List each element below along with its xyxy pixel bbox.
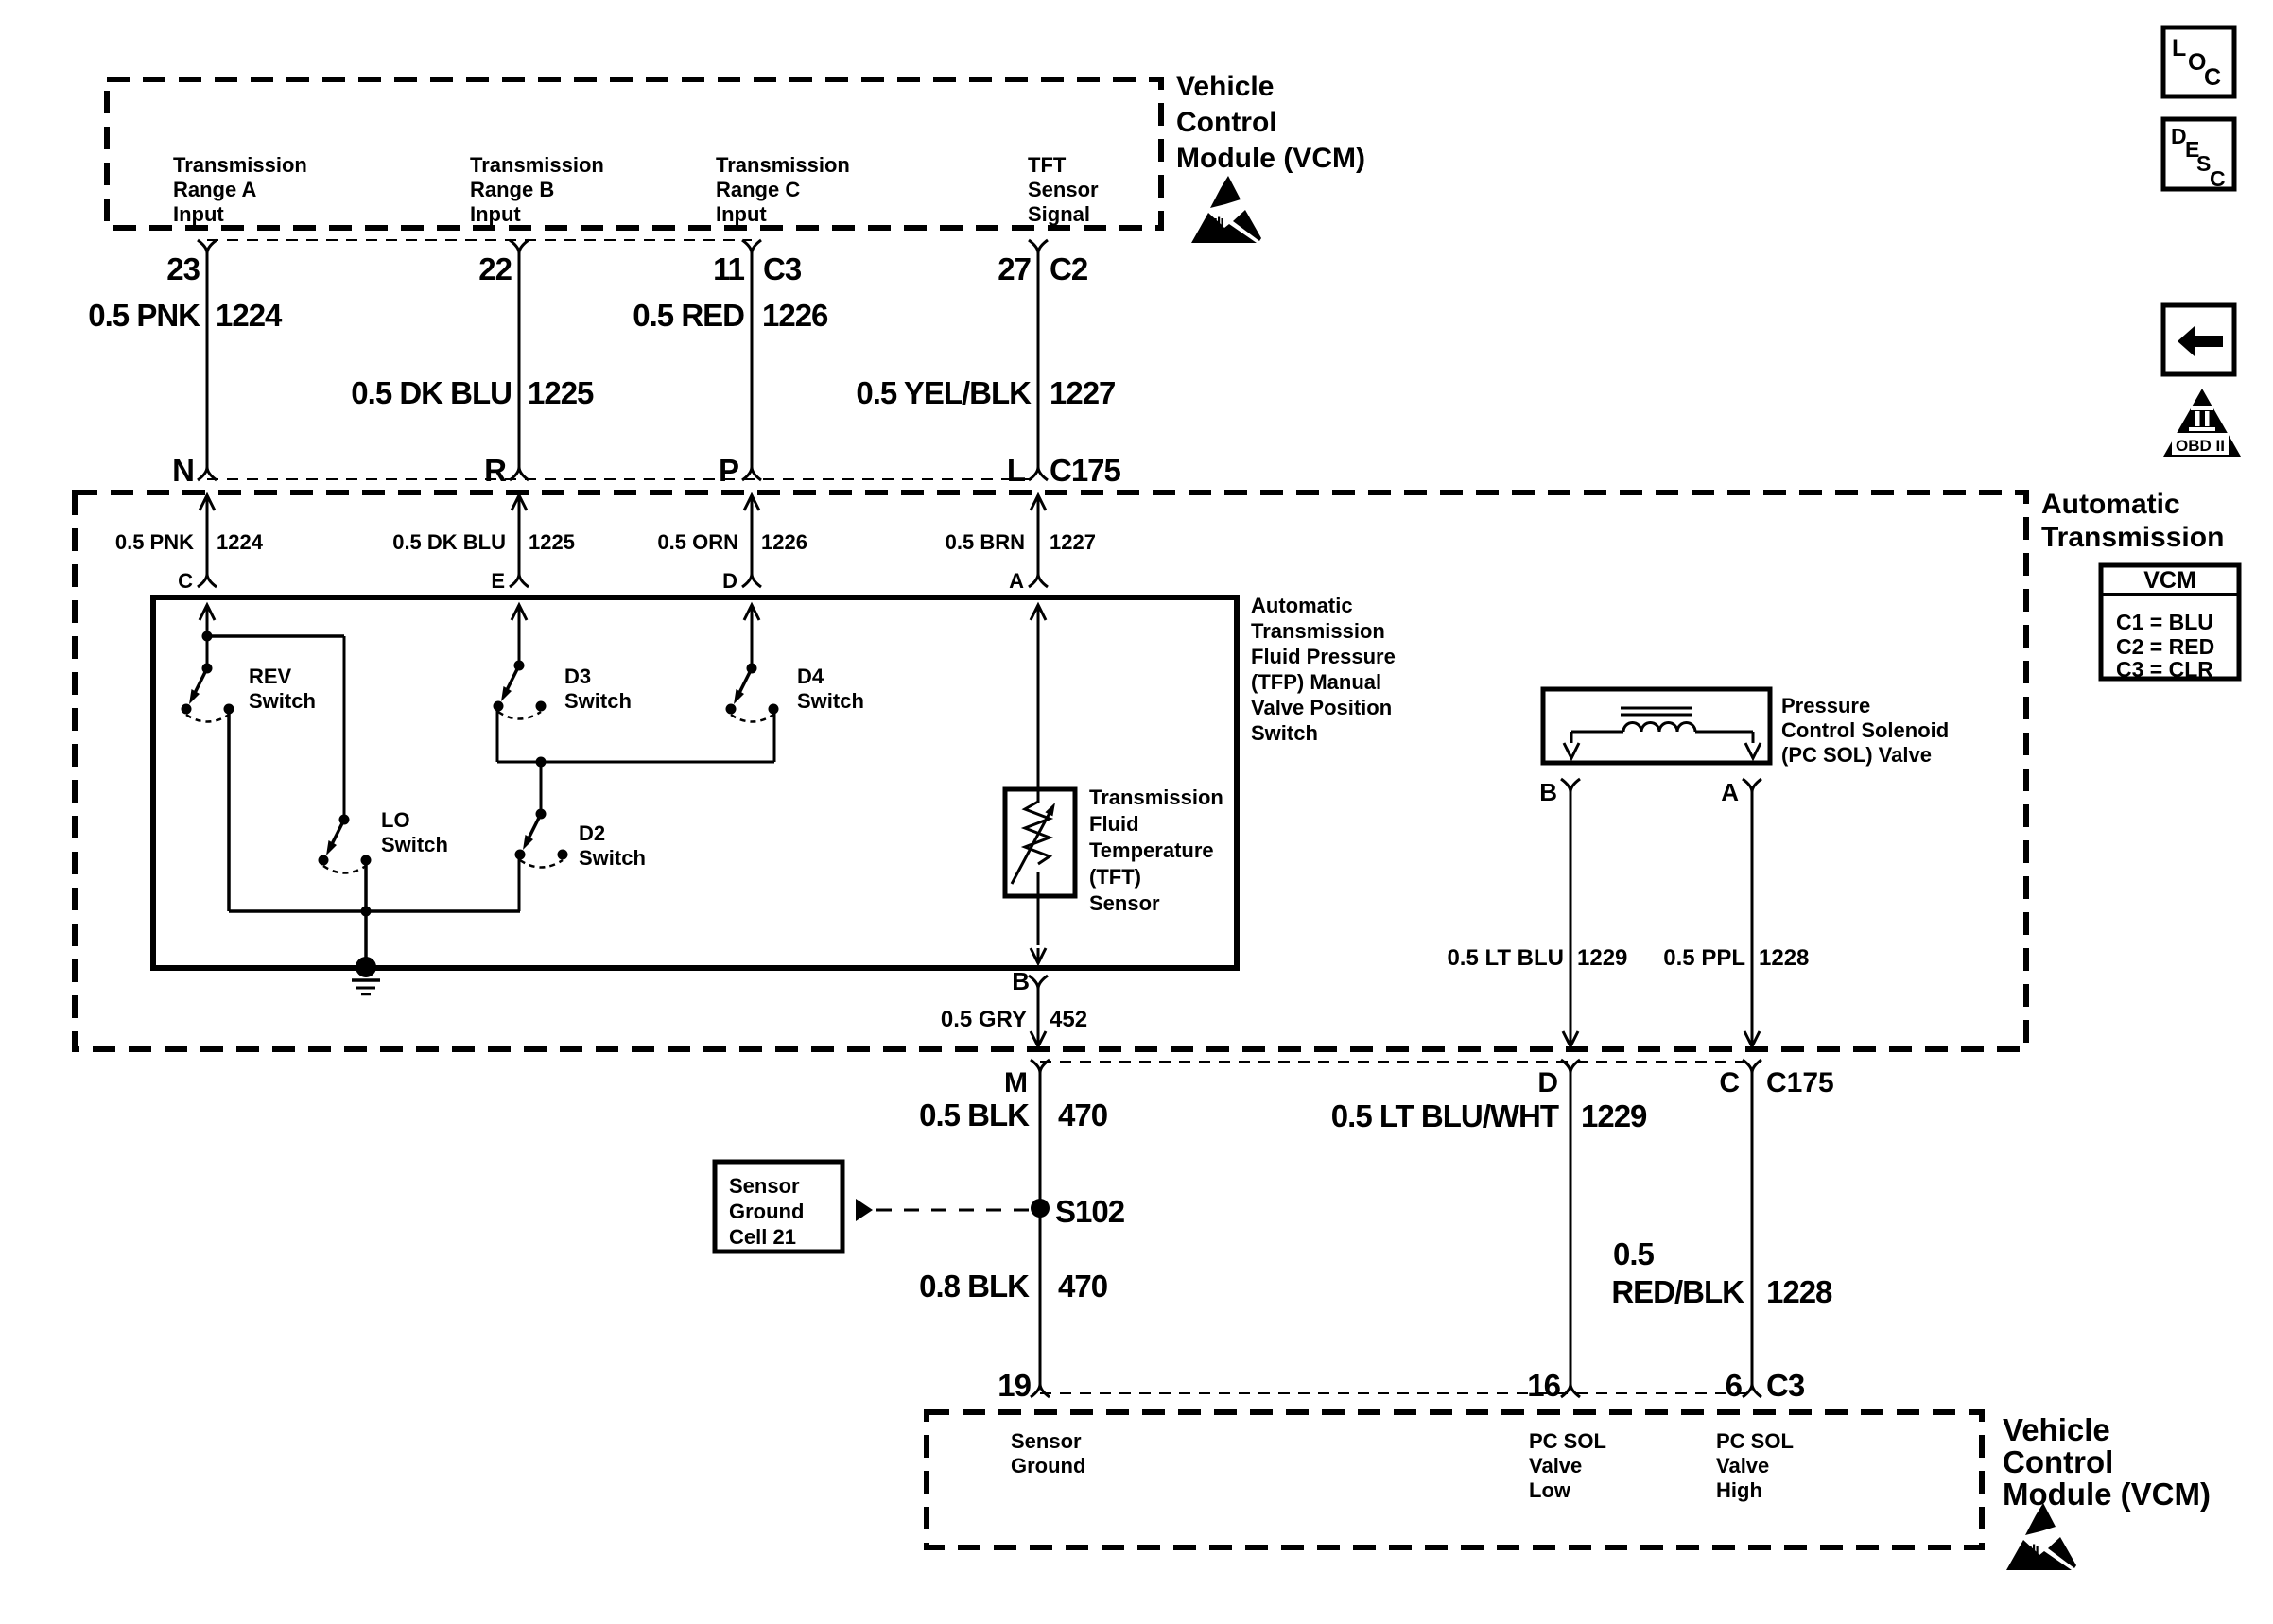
svg-text:Fluid: Fluid — [1089, 812, 1139, 836]
svg-text:Ground: Ground — [729, 1200, 804, 1223]
svg-text:0.5 PPL: 0.5 PPL — [1663, 945, 1745, 971]
svg-text:Fluid Pressure: Fluid Pressure — [1251, 645, 1396, 668]
svg-text:16: 16 — [1527, 1368, 1560, 1403]
svg-text:D: D — [722, 569, 737, 593]
svg-text:Switch: Switch — [249, 689, 316, 713]
svg-text:11: 11 — [713, 251, 745, 286]
svg-text:1228: 1228 — [1766, 1274, 1832, 1309]
svg-text:PC SOL: PC SOL — [1529, 1429, 1606, 1453]
svg-text:Valve: Valve — [1529, 1454, 1582, 1477]
svg-text:1225: 1225 — [529, 530, 575, 554]
svg-text:Pressure: Pressure — [1781, 694, 1870, 717]
svg-text:Temperature: Temperature — [1089, 838, 1214, 862]
svg-text:R: R — [484, 453, 507, 488]
svg-text:C175: C175 — [1050, 453, 1121, 488]
svg-text:1224: 1224 — [217, 530, 264, 554]
svg-text:(PC SOL) Valve: (PC SOL) Valve — [1781, 743, 1932, 767]
svg-text:Vehicle: Vehicle — [2003, 1412, 2110, 1447]
svg-text:Input: Input — [470, 202, 521, 226]
svg-text:D4: D4 — [797, 665, 824, 688]
svg-text:A: A — [1009, 569, 1024, 593]
svg-text:Switch: Switch — [797, 689, 864, 713]
svg-text:PC SOL: PC SOL — [1716, 1429, 1794, 1453]
svg-text:Transmission: Transmission — [1089, 786, 1223, 809]
svg-text:VCM: VCM — [2143, 567, 2196, 594]
svg-text:Automatic: Automatic — [2041, 489, 2180, 520]
svg-text:19: 19 — [998, 1368, 1031, 1403]
svg-text:6: 6 — [1726, 1368, 1743, 1403]
svg-text:23: 23 — [166, 251, 200, 286]
svg-text:C: C — [178, 569, 193, 593]
svg-text:Sensor: Sensor — [1028, 178, 1099, 201]
svg-text:Low: Low — [1529, 1478, 1571, 1502]
svg-text:REV: REV — [249, 665, 292, 688]
svg-text:1224: 1224 — [216, 298, 283, 333]
svg-text:Transmission: Transmission — [1251, 619, 1385, 643]
svg-text:452: 452 — [1050, 1007, 1087, 1032]
svg-text:0.5 ORN: 0.5 ORN — [657, 530, 738, 554]
svg-text:Switch: Switch — [564, 689, 632, 713]
svg-text:Transmission: Transmission — [716, 153, 850, 177]
svg-text:Transmission: Transmission — [470, 153, 604, 177]
svg-text:OBD II: OBD II — [2176, 437, 2225, 455]
svg-text:Input: Input — [716, 202, 767, 226]
svg-text:Valve Position: Valve Position — [1251, 696, 1392, 719]
svg-text:C3: C3 — [1766, 1368, 1805, 1403]
svg-text:M: M — [1004, 1067, 1028, 1098]
svg-text:Range C: Range C — [716, 178, 800, 201]
svg-text:27: 27 — [998, 251, 1031, 286]
svg-text:Control: Control — [2003, 1444, 2113, 1479]
svg-text:Switch: Switch — [381, 833, 448, 856]
svg-text:0.5 DK BLU: 0.5 DK BLU — [351, 375, 512, 410]
svg-text:LO: LO — [381, 808, 410, 832]
svg-text:470: 470 — [1058, 1269, 1107, 1304]
svg-text:Cell 21: Cell 21 — [729, 1225, 796, 1249]
svg-text:Ground: Ground — [1011, 1454, 1085, 1477]
svg-text:E: E — [491, 569, 505, 593]
svg-text:D: D — [1537, 1067, 1558, 1098]
svg-text:C2 = RED: C2 = RED — [2116, 634, 2214, 659]
svg-text:N: N — [172, 453, 194, 488]
svg-text:Module (VCM): Module (VCM) — [2003, 1477, 2211, 1512]
svg-text:Vehicle: Vehicle — [1176, 71, 1274, 102]
svg-text:1229: 1229 — [1577, 945, 1627, 971]
svg-text:0.5 BRN: 0.5 BRN — [946, 530, 1025, 554]
svg-text:Sensor: Sensor — [1011, 1429, 1082, 1453]
svg-text:(TFP) Manual: (TFP) Manual — [1251, 670, 1381, 694]
svg-text:B: B — [1539, 778, 1557, 806]
svg-text:1226: 1226 — [761, 530, 807, 554]
svg-text:Control: Control — [1176, 107, 1277, 138]
svg-text:RED/BLK: RED/BLK — [1611, 1274, 1744, 1309]
svg-text:High: High — [1716, 1478, 1762, 1502]
svg-text:1225: 1225 — [528, 375, 594, 410]
svg-text:0.8 BLK: 0.8 BLK — [919, 1269, 1030, 1304]
svg-text:1227: 1227 — [1050, 530, 1096, 554]
svg-text:S102: S102 — [1055, 1194, 1125, 1229]
svg-text:0.5 YEL/BLK: 0.5 YEL/BLK — [856, 375, 1032, 410]
svg-text:C175: C175 — [1766, 1067, 1834, 1098]
svg-text:Signal: Signal — [1028, 202, 1090, 226]
svg-text:C: C — [2204, 64, 2221, 91]
svg-text:0.5 GRY: 0.5 GRY — [941, 1007, 1027, 1032]
svg-text:0.5: 0.5 — [1613, 1236, 1655, 1271]
svg-text:0.5 PNK: 0.5 PNK — [88, 298, 200, 333]
svg-text:B: B — [1012, 967, 1030, 995]
svg-text:Control Solenoid: Control Solenoid — [1781, 718, 1949, 742]
svg-text:0.5 BLK: 0.5 BLK — [919, 1097, 1030, 1132]
svg-text:1228: 1228 — [1759, 945, 1809, 971]
svg-text:C2: C2 — [1050, 251, 1088, 286]
svg-text:C1 = BLU: C1 = BLU — [2116, 610, 2213, 634]
svg-text:C: C — [1719, 1067, 1740, 1098]
svg-text:L: L — [2172, 35, 2186, 61]
svg-text:D2: D2 — [579, 821, 605, 845]
svg-text:1226: 1226 — [762, 298, 828, 333]
svg-text:1229: 1229 — [1581, 1098, 1647, 1133]
svg-text:470: 470 — [1058, 1097, 1107, 1132]
svg-text:C3: C3 — [763, 251, 802, 286]
svg-text:A: A — [1721, 778, 1739, 806]
svg-text:0.5 LT BLU: 0.5 LT BLU — [1447, 945, 1564, 971]
svg-text:0.5 PNK: 0.5 PNK — [115, 530, 194, 554]
svg-text:0.5 DK BLU: 0.5 DK BLU — [392, 530, 506, 554]
svg-text:0.5 RED: 0.5 RED — [633, 298, 744, 333]
svg-text:(TFT): (TFT) — [1089, 865, 1141, 889]
svg-text:22: 22 — [478, 251, 512, 286]
svg-text:TFT: TFT — [1028, 153, 1067, 177]
svg-text:C3 = CLR: C3 = CLR — [2116, 657, 2213, 682]
svg-text:L: L — [1007, 453, 1026, 488]
svg-text:Range B: Range B — [470, 178, 554, 201]
svg-text:P: P — [719, 453, 738, 488]
svg-text:1227: 1227 — [1050, 375, 1115, 410]
svg-text:Transmission: Transmission — [2041, 522, 2224, 553]
svg-text:Input: Input — [173, 202, 224, 226]
svg-text:Valve: Valve — [1716, 1454, 1769, 1477]
svg-text:Module (VCM): Module (VCM) — [1176, 143, 1365, 174]
svg-text:0.5 LT BLU/WHT: 0.5 LT BLU/WHT — [1331, 1098, 1559, 1133]
svg-text:Switch: Switch — [579, 846, 646, 870]
svg-text:Sensor: Sensor — [1089, 891, 1160, 915]
svg-text:Sensor: Sensor — [729, 1174, 800, 1198]
svg-text:Transmission: Transmission — [173, 153, 307, 177]
svg-text:C: C — [2210, 166, 2226, 191]
svg-text:Range A: Range A — [173, 178, 257, 201]
svg-text:Automatic: Automatic — [1251, 594, 1353, 617]
svg-text:D3: D3 — [564, 665, 591, 688]
svg-text:Switch: Switch — [1251, 721, 1318, 745]
